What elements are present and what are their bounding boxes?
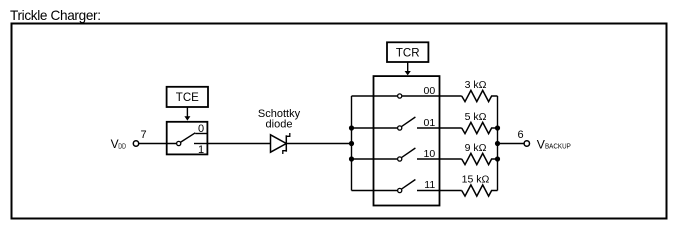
svg-text:9 kΩ: 9 kΩ: [465, 142, 487, 154]
switch 10 arm: [402, 148, 416, 157]
resistor R1 3k: [462, 90, 498, 101]
switch 01 contact / wire to resistor: [417, 127, 462, 129]
svg-text:11: 11: [424, 179, 435, 191]
switch 11 contact / wire to resistor: [417, 190, 462, 192]
schottky diode D1: [271, 133, 290, 154]
switch S1 arm: [181, 133, 196, 142]
svg-text:diode: diode: [266, 118, 293, 130]
resistor R3 9k: [462, 153, 498, 164]
switch S1 pivot: [177, 141, 181, 145]
wire row 00 input: [352, 95, 398, 97]
svg-text:TCR: TCR: [396, 47, 420, 59]
resistor R2 5k: [462, 122, 498, 133]
pin 6 terminal: [517, 129, 529, 146]
junction dot right row 01: [495, 125, 500, 130]
svg-text:0: 0: [198, 123, 204, 135]
svg-text:01: 01: [424, 117, 436, 129]
switch 11 pivot: [398, 188, 402, 192]
wire row 11 input: [352, 190, 398, 192]
wire switch to diode: [207, 143, 270, 145]
svg-text:6: 6: [517, 129, 523, 141]
wire row 10 input: [352, 158, 398, 160]
left bus wire: [351, 96, 353, 191]
svg-text:7: 7: [140, 129, 146, 141]
net label VBACKUP: [537, 138, 571, 152]
svg-text:DD: DD: [118, 141, 126, 150]
net label VDD: [111, 137, 126, 151]
switch S1 throw 1 contact: [194, 143, 207, 145]
switch 01 arm: [402, 117, 416, 126]
switch 10 pivot: [398, 157, 402, 161]
svg-text:TCE: TCE: [176, 92, 199, 104]
control box TCR: [387, 42, 428, 62]
svg-text:BACKUP: BACKUP: [545, 142, 571, 151]
TCE control arrow: [184, 107, 190, 121]
switch 00 pivot: [398, 94, 402, 98]
switch S1 box: [167, 122, 208, 155]
control box TCE: [167, 87, 208, 107]
junction dot left row 10: [349, 156, 354, 161]
wire row 01 input: [352, 127, 398, 129]
right bus wire: [497, 96, 499, 191]
label Schottky diode: [258, 108, 301, 130]
switch 10 contact / wire to resistor: [417, 158, 462, 160]
junction dot left row 01: [349, 125, 354, 130]
switch 01 pivot: [398, 126, 402, 130]
svg-text:5 kΩ: 5 kΩ: [465, 111, 487, 123]
junction dot right output: [495, 141, 500, 146]
svg-text:3 kΩ: 3 kΩ: [465, 79, 487, 91]
switch 00 closed arm / wire to resistor: [402, 95, 462, 97]
wire VDD to TCE switch: [139, 143, 177, 145]
svg-text:10: 10: [424, 148, 436, 160]
wire output: [498, 143, 525, 145]
switch 11 arm: [402, 180, 416, 189]
resistor R4 15k: [462, 185, 498, 196]
svg-text:00: 00: [424, 85, 436, 97]
switch bank box: [374, 76, 440, 205]
pin 7 terminal: [133, 129, 146, 146]
junction dot right row 10: [495, 156, 500, 161]
svg-text:15 kΩ: 15 kΩ: [462, 174, 490, 186]
TCR control arrow: [405, 62, 411, 75]
svg-text:Trickle Charger:: Trickle Charger:: [10, 8, 101, 23]
wire diode to resistor bank bus: [287, 143, 352, 145]
junction dot left input: [349, 141, 354, 146]
svg-text:1: 1: [198, 144, 204, 156]
switch S1 throw 0 contact: [195, 133, 207, 135]
